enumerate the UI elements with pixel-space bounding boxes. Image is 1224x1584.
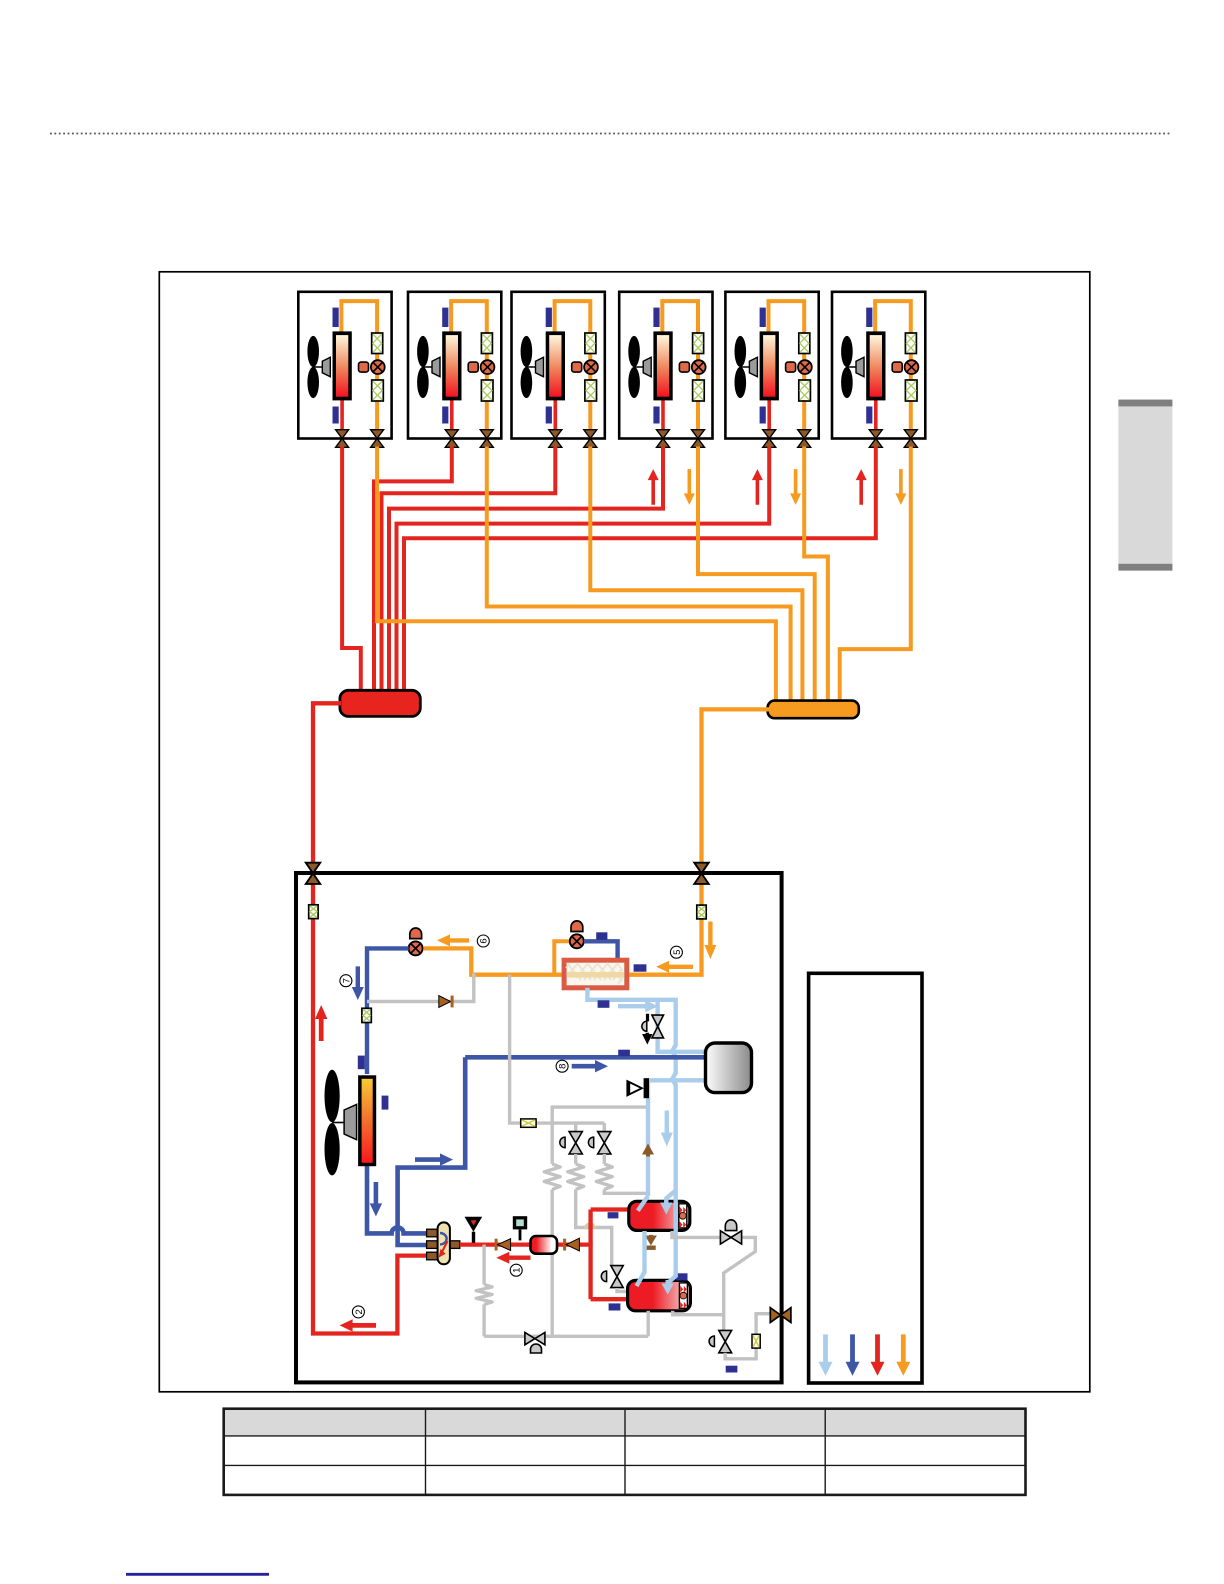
accumulator tank (706, 1043, 752, 1093)
indoor unit 4 (fan coil with heat exchanger, EEV, strainers, service valves) (619, 292, 712, 448)
four-way valve port lower (427, 1252, 438, 1260)
sensor on accumulator pipe (618, 1050, 630, 1057)
suction arrow into compressor 1 (666, 1191, 675, 1204)
sensor on gas line (634, 964, 647, 971)
flow arrow right (to accumulator) (572, 1060, 608, 1072)
liquid pipe from indoor unit 6 to liquid header (404, 447, 876, 693)
dotted separator rule (50, 133, 1172, 135)
gas line service valve at outdoor unit (694, 863, 708, 874)
gas line down-arrow at service valve (704, 922, 716, 960)
oil trap funnel on discharge (465, 1217, 483, 1232)
gas injection valve stem (646, 1014, 649, 1022)
four-way valve port right (450, 1241, 460, 1249)
four-way valve port middle (427, 1241, 438, 1249)
gas pipe from indoor unit 4 to gas header (698, 447, 815, 703)
suction line down-arrow (661, 1111, 673, 1147)
flow arrow down (HX outlet) (370, 1182, 382, 1216)
oil solenoid valve 2 (603, 1123, 606, 1132)
legend arrow discharge gas (orange) (896, 1334, 910, 1375)
specification table (empty) (224, 1409, 1026, 1495)
oil balance solenoid (top) dome (725, 1220, 736, 1231)
oil balance solenoid (top) valve (720, 1231, 731, 1244)
bottom oil header line (484, 1335, 648, 1338)
four-way valve internal flow (blue) (440, 1233, 447, 1244)
flow arrow (gas, left) at EEV1 (437, 934, 469, 946)
outdoor fan blades (325, 1070, 340, 1122)
injection branch to accumulator top port (658, 1000, 704, 1052)
flow arrow up (liquid, unit 6) (856, 469, 867, 505)
flow arrow 2 (liquid leftward) (340, 1319, 376, 1331)
svg-text:6: 6 (479, 938, 490, 943)
four-way valve internal flow (red) (442, 1241, 448, 1253)
suction pass-through at compressor 1 (674, 1196, 678, 1231)
liquid pipe from indoor unit 2 to liquid header (374, 447, 452, 693)
indoor unit 5 (fan coil with heat exchanger, EEV, strainers, service valves) (725, 292, 818, 448)
plate heat exchanger (subcooler) (564, 960, 627, 988)
strainer on oil return (752, 1334, 760, 1348)
gas injection valve actuator (642, 1021, 647, 1031)
oil return arrow (brown, up) (642, 1144, 654, 1157)
strainer on gray line (521, 1119, 536, 1127)
compressor 1 discharge line (591, 1207, 630, 1211)
liquid header (red manifold) (340, 690, 420, 716)
outdoor fan motor cone (344, 1104, 357, 1139)
flow arrow right (suction) (618, 1000, 658, 1012)
discharge muffler (531, 1236, 558, 1254)
diagram outer frame (159, 272, 1090, 1392)
gas injection valve (gray) (652, 1015, 664, 1026)
legend arrow liquid (red) (871, 1334, 885, 1375)
oil solenoid valve 3 (to compressor 2) (611, 1266, 623, 1277)
flow arrow down (gas, unit 4) (684, 469, 695, 505)
defrost return pipe (dark blue) (398, 1057, 466, 1245)
suction line into compressor 2 (right) (668, 1231, 676, 1283)
sensor under compressor 2 line (609, 1303, 621, 1310)
sensor above compressor 2 (676, 1273, 687, 1280)
legend arrow gas (dark blue) (846, 1334, 860, 1375)
liquid sub line from EEV1 (367, 948, 409, 1074)
footer rule (navy) (126, 1573, 269, 1576)
main liquid line from header to outdoor unit (313, 703, 430, 1333)
flow arrow up (liquid, unit 5) (752, 469, 763, 505)
outdoor unit enclosure (296, 873, 782, 1382)
gas header (orange manifold) (768, 701, 859, 719)
gas pipe from indoor unit 2 to gas header (487, 447, 791, 703)
legend box (809, 973, 922, 1383)
gas pipe from indoor unit 6 to gas header (840, 447, 911, 703)
svg-text:8: 8 (558, 1064, 569, 1069)
svg-text:1: 1 (512, 1268, 523, 1273)
branch to outdoor EEV2 (554, 941, 570, 974)
gray capillary branch 1 (551, 1123, 554, 1164)
gray line to suction (552, 1107, 646, 1123)
four-way valve body (438, 1222, 450, 1264)
check valve on discharge (495, 1239, 498, 1251)
strainer on subcool line (362, 1008, 371, 1022)
indoor unit 6 (fan coil with heat exchanger, EEV, strainers, service valves) (832, 292, 925, 448)
strainer funnel on suction line (626, 1080, 644, 1097)
accumulator bottom port line (648, 1080, 704, 1196)
sensor beside outdoor HX (382, 1096, 389, 1110)
gray capillary branch 2 (574, 1154, 577, 1164)
main gas line from header to outdoor unit (424, 709, 769, 974)
pressure sensor on discharge (513, 1216, 527, 1229)
gray capillary branch 3 (603, 1154, 606, 1164)
line from EEV2 to plate heat exchanger (584, 941, 618, 958)
crossing hop marker on red line (585, 1224, 594, 1229)
liquid pipe from indoor unit 4 to liquid header (389, 447, 663, 693)
flow arrow up (liquid, unit 4) (648, 469, 659, 505)
flow arrow down (gas, unit 6) (895, 469, 906, 505)
check valve after compressors (563, 1239, 566, 1251)
suction line from plate HX to compressors (587, 988, 675, 1196)
legend arrow low pressure gas (light blue) (819, 1334, 833, 1375)
strainer on gas line (697, 905, 706, 919)
svg-text:7: 7 (341, 978, 352, 983)
discharge riser between compressors (588, 1210, 592, 1300)
oil solenoid (bottom) valve (525, 1332, 535, 1344)
flow arrow right (defrost return) (415, 1153, 453, 1165)
outdoor EEV2 body (570, 934, 584, 948)
oil line from compressor 2 (right) (673, 1311, 724, 1315)
label 2 (circled) (352, 1306, 364, 1318)
sensor under compressor 1 line (608, 1212, 619, 1218)
outdoor EEV1 (subcool expansion valve) dome (410, 928, 422, 939)
outdoor HX outlet pipe (dark blue) with crossover (367, 1165, 430, 1233)
sensor after EEV2 (596, 932, 607, 940)
flow arrow (gas, left) to plate HX (656, 961, 693, 973)
indoor unit 2 (fan coil with heat exchanger, EEV, strainers, service valves) (408, 292, 501, 448)
compressor oil drain line (647, 1311, 650, 1337)
gas pipe from indoor unit 1 to gas header (377, 447, 776, 703)
sensor above outdoor HX (358, 1056, 365, 1070)
label 5 (circled) (670, 946, 682, 958)
label 6 (circled) (477, 935, 489, 947)
gas pipe from indoor unit 3 to gas header (590, 447, 802, 703)
strainer on liquid line (309, 905, 318, 919)
chapter side tab (1118, 400, 1172, 571)
sensor at oil return (726, 1366, 738, 1373)
sensor on suction branch (598, 1000, 610, 1008)
flow arrow down (subcooled liquid) (352, 966, 364, 1000)
liquid pipe from indoor unit 5 to liquid header (397, 447, 770, 693)
gas pipe from indoor unit 5 to gas header (804, 447, 828, 703)
gas pipe to accumulator (dark blue) (465, 1055, 704, 1060)
oil solenoid valve 1 (574, 1123, 577, 1131)
high pressure gray line from gas header pipe (510, 975, 605, 1123)
indoor unit 3 (fan coil with heat exchanger, EEV, strainers, service valves) (512, 292, 605, 448)
outdoor EEV1 body (409, 941, 423, 955)
four-way valve port upper (427, 1229, 438, 1237)
liquid line service valve at outdoor unit (306, 863, 320, 874)
liquid pipe from indoor unit 1 to liquid header (342, 447, 361, 693)
label 1 (circled) (510, 1264, 522, 1276)
gray tap to capillary (482, 1245, 485, 1285)
oil drain arrow (brown, down) with stop (645, 1235, 657, 1246)
compressor 1 (inverter) (629, 1201, 690, 1230)
check valve on bypass (439, 996, 451, 1008)
bypass line (gray) with check valve (367, 973, 474, 1002)
oil balance line from compressor 1 (672, 1231, 755, 1330)
oil return loop lower right (725, 1314, 772, 1359)
flow arrow 1 (discharge left) (496, 1252, 530, 1264)
oil charge valve on enclosure edge (770, 1308, 780, 1323)
oil solenoid (bottom) dome (531, 1344, 542, 1353)
svg-text:2: 2 (354, 1309, 365, 1314)
black arrow down at injection valve (642, 1033, 652, 1045)
outdoor fan shaft (332, 1122, 346, 1124)
outdoor heat exchanger (358, 1075, 376, 1166)
oil solenoid valve (right lower) (719, 1330, 732, 1341)
compressor 2 (constant) (628, 1280, 691, 1310)
flow arrow down (gas, unit 5) (790, 469, 801, 505)
suction line into compressor 2 (left) (637, 1231, 645, 1286)
label 7 (circled) (340, 975, 352, 987)
outdoor EEV2 dome (571, 921, 583, 932)
discharge main line (460, 1242, 593, 1246)
compressor 2 discharge line (591, 1297, 629, 1301)
indoor unit 1 (fan coil with heat exchanger, EEV, strainers, service valves) (298, 292, 391, 448)
flow arrow (liquid up) (315, 1005, 327, 1041)
svg-text:5: 5 (672, 950, 683, 955)
liquid pipe from indoor unit 3 to liquid header (382, 447, 556, 693)
label 8 (circled) (556, 1060, 568, 1072)
suction dip into compressor 1 (638, 1196, 648, 1211)
